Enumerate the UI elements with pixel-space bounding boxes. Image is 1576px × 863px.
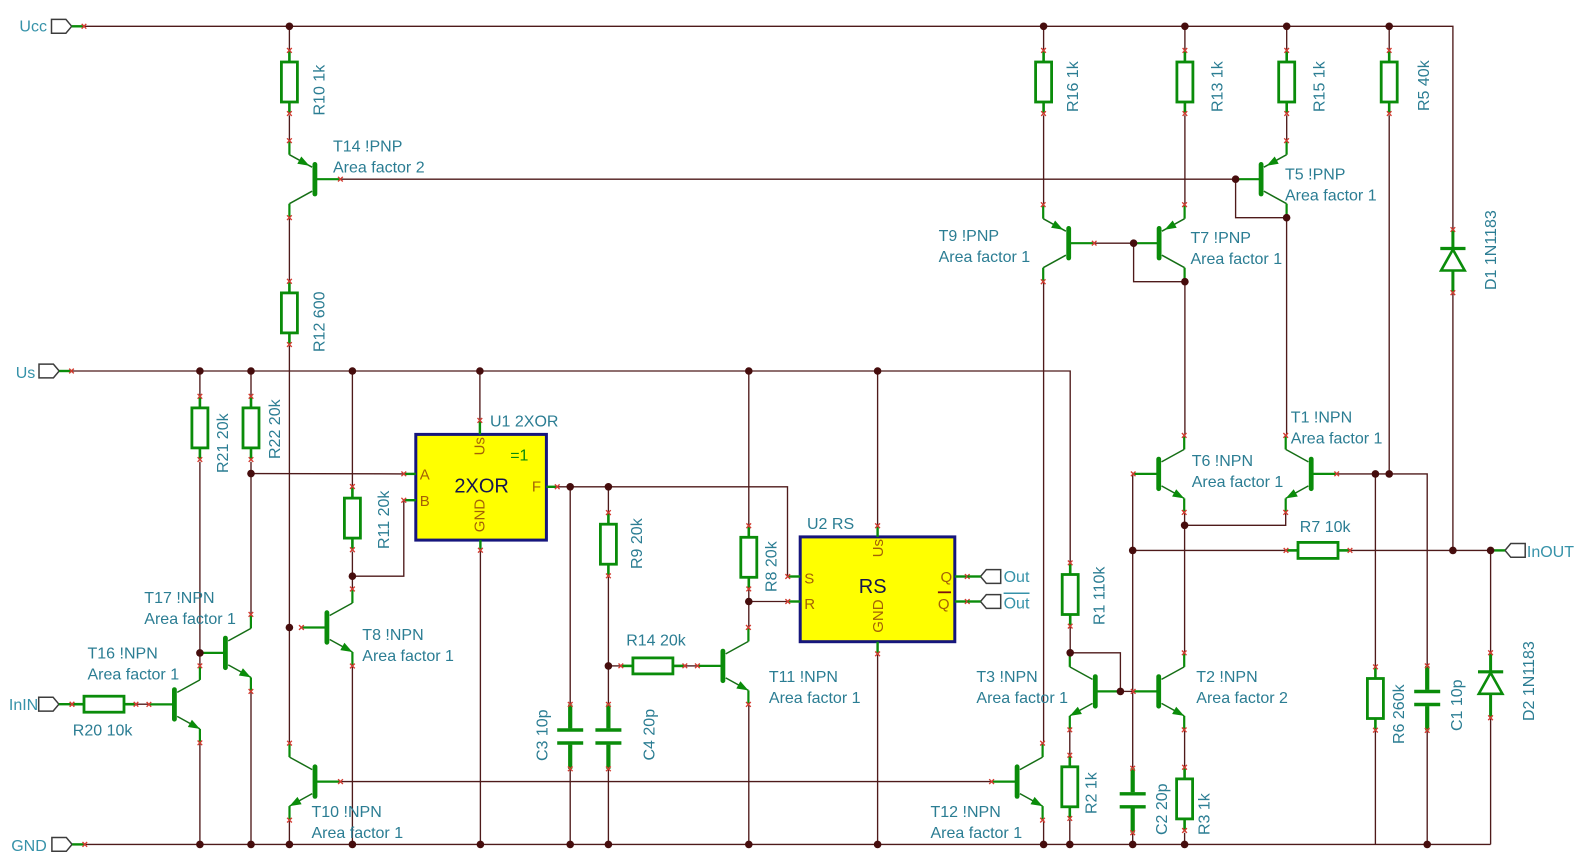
svg-text:C4 20p: C4 20p — [642, 709, 659, 761]
svg-text:Area factor 1: Area factor 1 — [362, 648, 454, 665]
svg-text:T1 !NPN: T1 !NPN — [1291, 409, 1352, 426]
svg-text:Area factor 1: Area factor 1 — [939, 249, 1031, 266]
svg-text:T6 !NPN: T6 !NPN — [1192, 453, 1253, 470]
svg-text:R3 1k: R3 1k — [1197, 792, 1214, 835]
svg-text:D1 1N1183: D1 1N1183 — [1483, 210, 1500, 290]
svg-text:D2 1N1183: D2 1N1183 — [1521, 641, 1538, 721]
svg-text:RS: RS — [859, 576, 887, 598]
svg-text:R13 1k: R13 1k — [1210, 60, 1227, 112]
svg-text:T7 !PNP: T7 !PNP — [1191, 230, 1251, 247]
svg-text:Us: Us — [870, 539, 887, 557]
svg-text:R12 600: R12 600 — [312, 291, 329, 352]
svg-text:=1: =1 — [510, 448, 528, 465]
svg-text:C3 10p: C3 10p — [534, 709, 551, 761]
svg-text:Out: Out — [1004, 569, 1030, 586]
svg-text:R16 1k: R16 1k — [1065, 60, 1082, 112]
svg-text:Area factor 1: Area factor 1 — [88, 667, 180, 684]
svg-text:Area factor 1: Area factor 1 — [769, 690, 861, 707]
svg-text:Area factor 1: Area factor 1 — [931, 825, 1023, 842]
svg-text:R6 260k: R6 260k — [1391, 683, 1408, 744]
svg-text:R7 10k: R7 10k — [1300, 519, 1352, 536]
svg-text:InIN: InIN — [9, 697, 38, 714]
svg-text:T12 !NPN: T12 !NPN — [931, 804, 1001, 821]
svg-text:F: F — [532, 479, 541, 496]
svg-text:T16 !NPN: T16 !NPN — [88, 646, 158, 663]
svg-text:T14 !PNP: T14 !PNP — [333, 139, 402, 156]
svg-text:C2 20p: C2 20p — [1154, 783, 1171, 835]
svg-text:InOUT: InOUT — [1527, 544, 1574, 561]
svg-text:GND: GND — [11, 838, 47, 855]
svg-text:Area factor 1: Area factor 1 — [144, 611, 236, 628]
svg-text:Area factor 1: Area factor 1 — [312, 825, 404, 842]
svg-text:Area factor 1: Area factor 1 — [1291, 431, 1383, 448]
svg-text:Area factor 1: Area factor 1 — [976, 690, 1068, 707]
svg-text:Us: Us — [472, 437, 489, 455]
svg-text:Q: Q — [941, 569, 953, 586]
svg-text:Q: Q — [938, 596, 950, 613]
svg-text:A: A — [420, 466, 430, 483]
svg-text:GND: GND — [870, 599, 887, 633]
svg-text:R8 20k: R8 20k — [764, 540, 781, 592]
svg-text:R2 1k: R2 1k — [1084, 771, 1101, 814]
svg-text:Out: Out — [1004, 595, 1030, 612]
svg-text:T3 !NPN: T3 !NPN — [976, 669, 1037, 686]
svg-text:U2 RS: U2 RS — [807, 516, 854, 533]
svg-text:Area factor 2: Area factor 2 — [1196, 690, 1288, 707]
svg-text:R1 110k: R1 110k — [1091, 566, 1108, 625]
svg-text:R15 1k: R15 1k — [1311, 60, 1328, 112]
svg-text:C1 10p: C1 10p — [1449, 679, 1466, 731]
svg-text:B: B — [420, 493, 430, 510]
svg-text:Area factor 2: Area factor 2 — [333, 160, 425, 177]
svg-text:R20 10k: R20 10k — [73, 723, 134, 740]
svg-text:U1 2XOR: U1 2XOR — [490, 414, 558, 431]
svg-text:R: R — [804, 596, 815, 613]
svg-text:T2 !NPN: T2 !NPN — [1196, 669, 1257, 686]
svg-text:S: S — [804, 570, 814, 587]
svg-text:R14 20k: R14 20k — [626, 633, 687, 650]
svg-text:Ucc: Ucc — [19, 18, 47, 35]
svg-text:R11 20k: R11 20k — [376, 490, 393, 549]
svg-text:R22 20k: R22 20k — [267, 398, 284, 459]
svg-text:Area factor 1: Area factor 1 — [1191, 251, 1283, 268]
svg-text:Us: Us — [16, 365, 36, 382]
svg-text:GND: GND — [472, 499, 489, 533]
svg-text:2XOR: 2XOR — [454, 475, 508, 497]
svg-text:T5 !PNP: T5 !PNP — [1285, 167, 1345, 184]
svg-text:Area factor 1: Area factor 1 — [1192, 474, 1284, 491]
svg-text:R10 1k: R10 1k — [312, 64, 329, 116]
svg-text:T11 !NPN: T11 !NPN — [769, 669, 838, 686]
svg-text:Area factor 1: Area factor 1 — [1285, 188, 1377, 205]
svg-text:R21 20k: R21 20k — [215, 412, 232, 473]
svg-text:T10 !NPN: T10 !NPN — [312, 804, 382, 821]
svg-text:T8 !NPN: T8 !NPN — [362, 627, 423, 644]
svg-text:T9 !PNP: T9 !PNP — [939, 228, 999, 245]
svg-text:T17 !NPN: T17 !NPN — [144, 590, 214, 607]
svg-text:R9 20k: R9 20k — [629, 517, 646, 569]
svg-text:R5 40k: R5 40k — [1416, 59, 1433, 111]
